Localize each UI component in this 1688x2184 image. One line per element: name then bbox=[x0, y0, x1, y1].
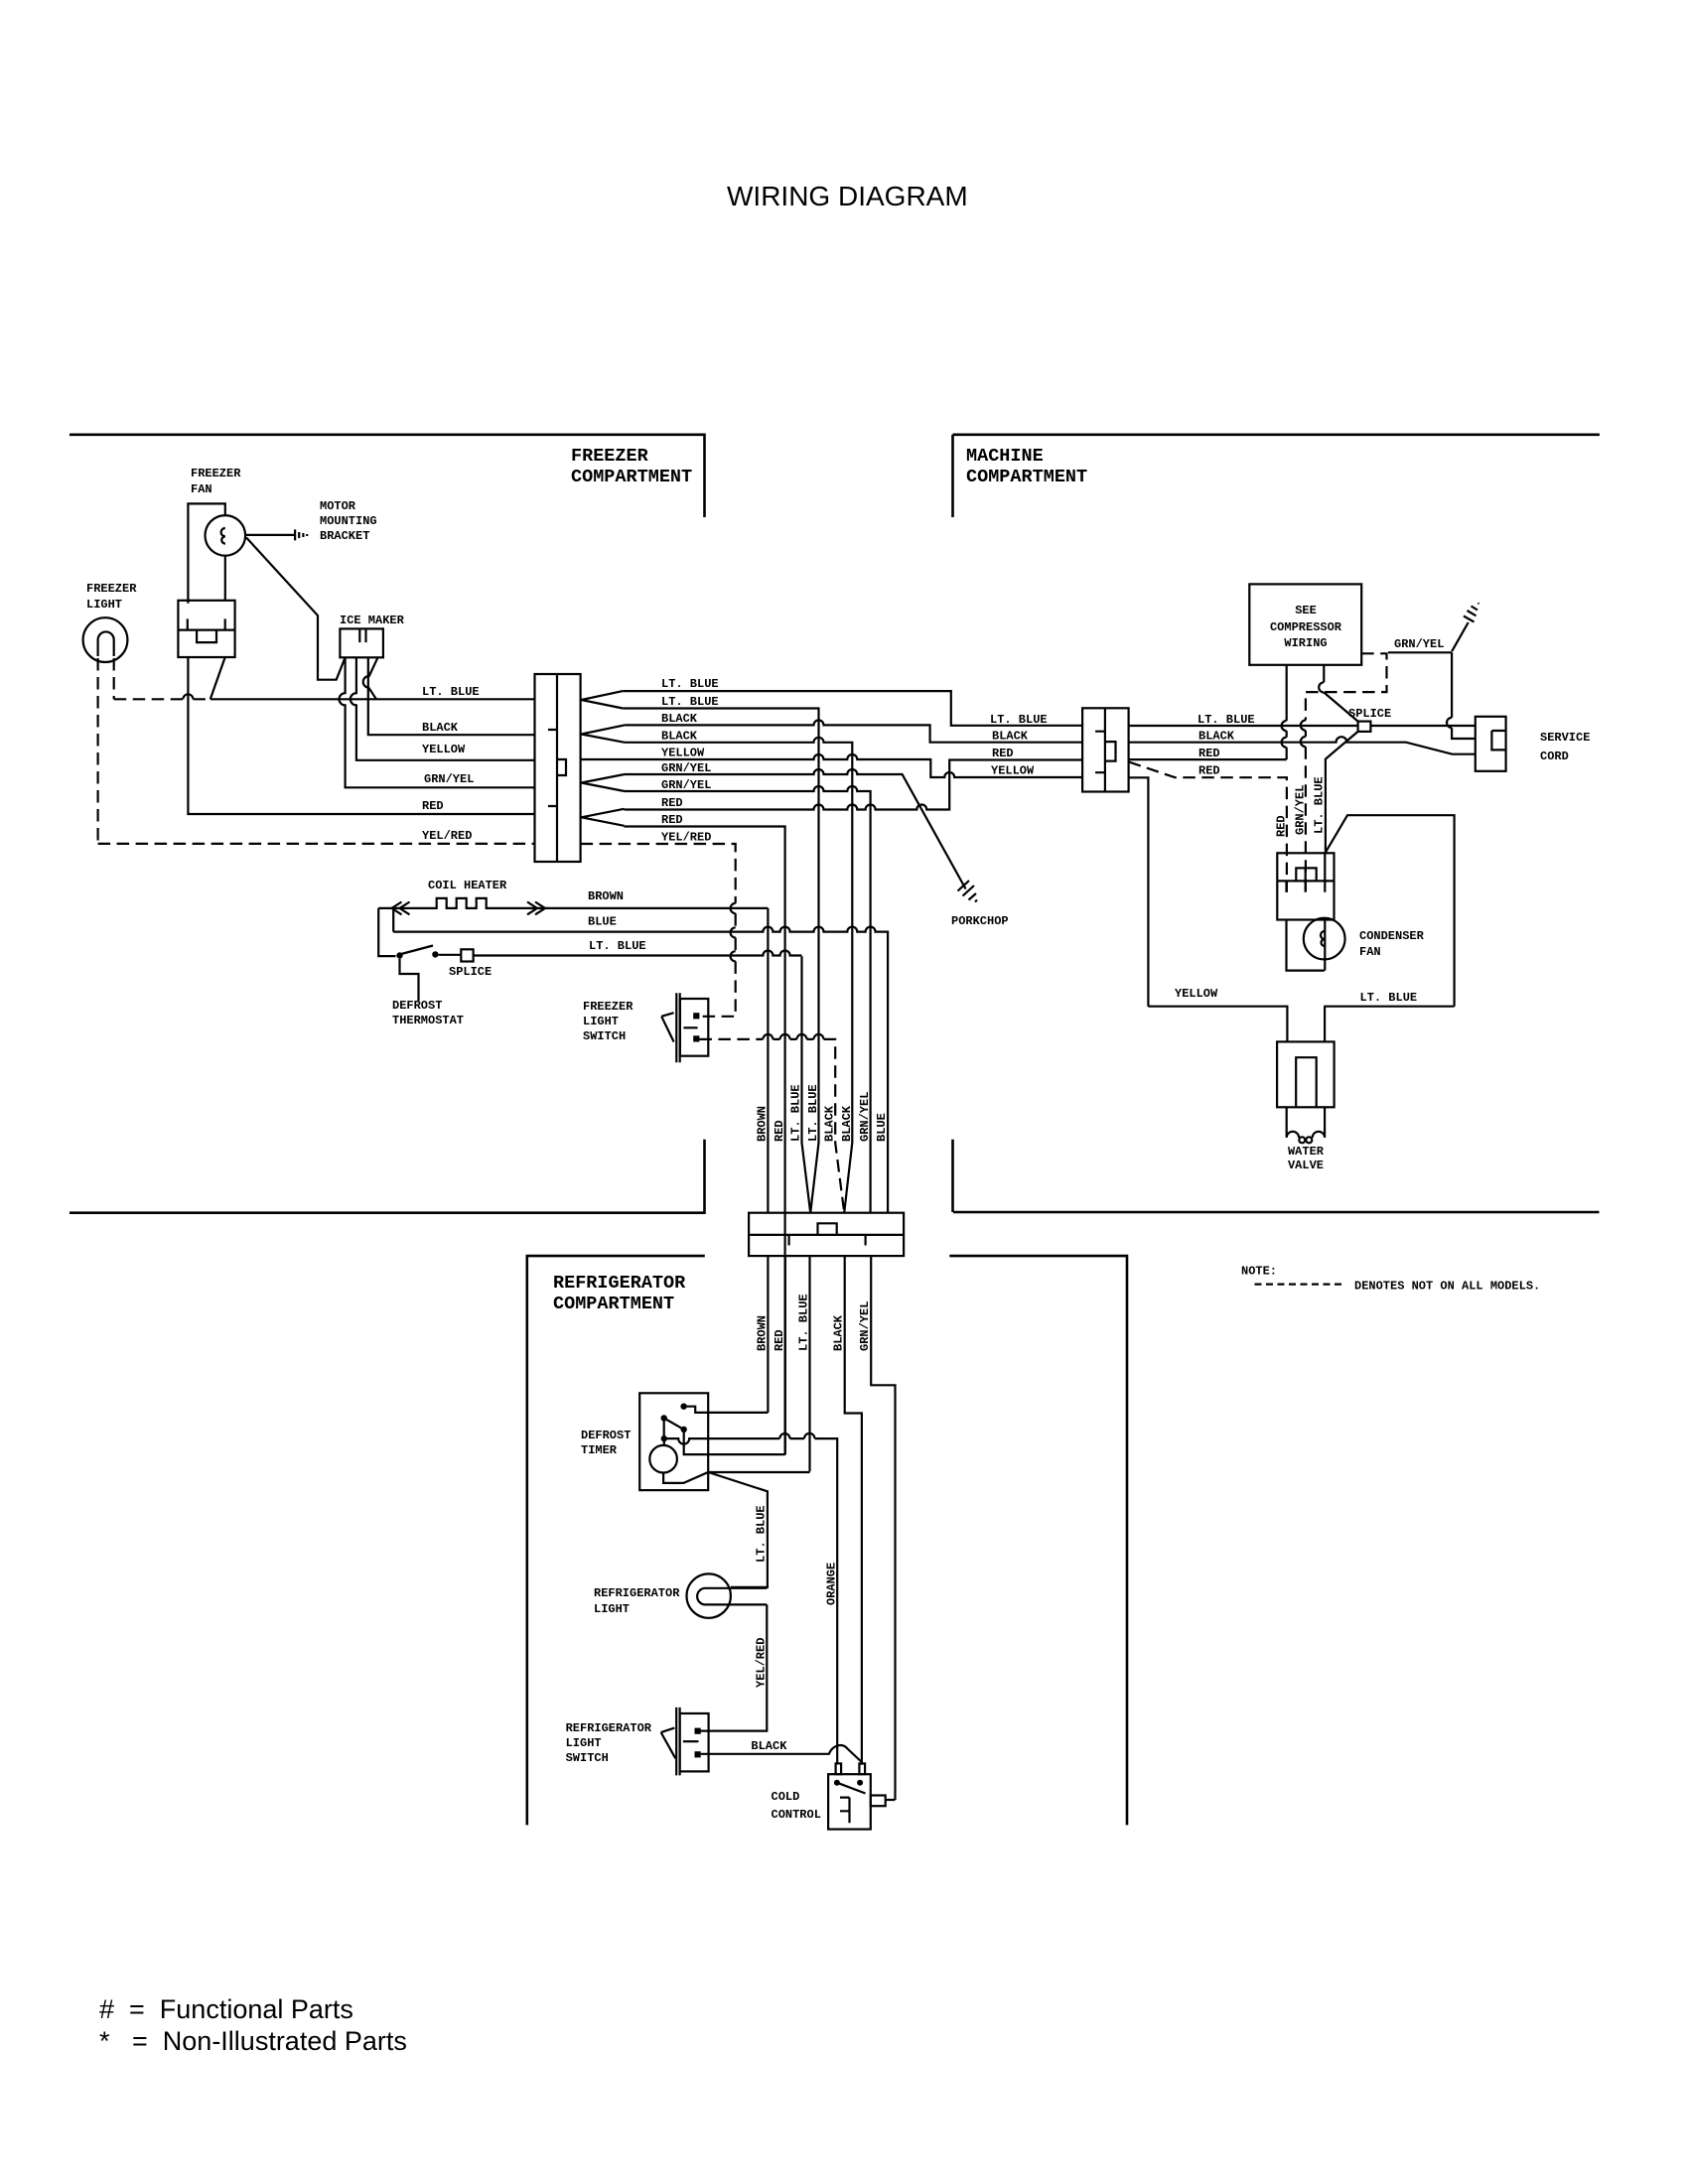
svg-text:MOUNTING: MOUNTING bbox=[320, 514, 377, 528]
defrost thermostat contacts bbox=[396, 952, 402, 958]
splice square machine bbox=[1358, 722, 1371, 732]
compressor LT. BLUE vertical to splice bbox=[1324, 665, 1357, 853]
condenser fan coil marks bbox=[1321, 931, 1325, 946]
svg-text:RED: RED bbox=[1198, 764, 1220, 778]
service cord block bbox=[1476, 717, 1506, 771]
svg-text:BLACK: BLACK bbox=[992, 730, 1029, 744]
machine compartment border bbox=[953, 435, 1600, 1212]
svg-text:MACHINE: MACHINE bbox=[966, 446, 1044, 467]
freezer fan motor circle bbox=[206, 515, 246, 556]
wire BLACK 1 to machine bbox=[625, 720, 1082, 742]
refrigerator light circle bbox=[687, 1573, 731, 1617]
wire LT. BLUE freezer run bbox=[211, 698, 535, 700]
compressor terminal block bbox=[1277, 853, 1334, 920]
refrigerator compartment border bbox=[527, 1256, 1127, 1825]
svg-text:LT. BLUE: LT. BLUE bbox=[789, 1084, 803, 1142]
svg-text:NOTE:: NOTE: bbox=[1241, 1265, 1277, 1279]
svg-text:LT. BLUE: LT. BLUE bbox=[1313, 776, 1327, 834]
svg-text:COMPARTMENT: COMPARTMENT bbox=[571, 467, 692, 487]
svg-text:COMPARTMENT: COMPARTMENT bbox=[966, 467, 1087, 487]
svg-text:FREEZER: FREEZER bbox=[583, 1000, 633, 1014]
svg-text:WIRING DIAGRAM: WIRING DIAGRAM bbox=[727, 181, 968, 211]
svg-text:SPLICE: SPLICE bbox=[449, 965, 492, 979]
svg-text:TIMER: TIMER bbox=[581, 1443, 618, 1457]
wire YEL/RED dashed from light to connector bbox=[98, 843, 535, 845]
freezer fan outline bbox=[188, 503, 224, 603]
svg-text:BLACK: BLACK bbox=[751, 1739, 787, 1753]
freezer light circle bbox=[83, 617, 128, 662]
svg-text:CORD: CORD bbox=[1540, 750, 1569, 763]
svg-text:BLACK: BLACK bbox=[840, 1105, 854, 1142]
svg-text:GRN/YEL: GRN/YEL bbox=[858, 1301, 872, 1351]
svg-text:COIL HEATER: COIL HEATER bbox=[428, 879, 507, 892]
svg-text:DENOTES NOT ON ALL MODELS.: DENOTES NOT ON ALL MODELS. bbox=[1354, 1280, 1540, 1294]
svg-text:FREEZER: FREEZER bbox=[191, 467, 241, 480]
defrost timer contacts bbox=[680, 1404, 686, 1410]
svg-text:DEFROST: DEFROST bbox=[392, 999, 442, 1013]
wire fan block to LT. BLUE junction bbox=[211, 657, 225, 699]
condenser box outline bbox=[1326, 815, 1455, 1007]
wire GRN/YEL 1 to porkchop bbox=[625, 769, 966, 889]
svg-text:COMPARTMENT: COMPARTMENT bbox=[553, 1294, 674, 1314]
wire BROWN below connector bbox=[767, 1256, 769, 1413]
svg-text:DEFROST: DEFROST bbox=[581, 1429, 631, 1442]
svg-text:RED: RED bbox=[422, 799, 444, 813]
defrost timer motor bbox=[649, 1445, 677, 1473]
ice maker pin 2 wire YELLOW bbox=[351, 657, 535, 760]
svg-text:GRN/YEL: GRN/YEL bbox=[1394, 637, 1444, 651]
svg-text:YEL/RED: YEL/RED bbox=[755, 1638, 769, 1688]
ice maker pin 1 wire GRN/YEL bbox=[340, 657, 535, 787]
svg-text:BLACK: BLACK bbox=[823, 1105, 837, 1142]
connector pin flag GRN/YEL bbox=[581, 774, 625, 791]
svg-text:YEL/RED: YEL/RED bbox=[422, 829, 472, 843]
svg-text:LT. BLUE: LT. BLUE bbox=[806, 1084, 820, 1142]
svg-text:RED: RED bbox=[661, 813, 683, 827]
condenser fan circle bbox=[1304, 918, 1345, 960]
wire BROWN vertical bbox=[767, 908, 769, 1213]
svg-text:LT. BLUE: LT. BLUE bbox=[589, 939, 646, 953]
connector pin flag RED bbox=[581, 809, 624, 826]
svg-text:FREEZER: FREEZER bbox=[86, 582, 137, 596]
svg-text:LIGHT: LIGHT bbox=[594, 1602, 630, 1616]
freezer fan coil marks bbox=[221, 528, 225, 544]
wire RED 1 to machine bbox=[625, 760, 1083, 810]
svg-text:BLACK: BLACK bbox=[661, 730, 698, 744]
svg-text:WIRING: WIRING bbox=[1284, 636, 1327, 650]
freezer light bulb bbox=[98, 631, 114, 656]
connector pin flag LT. BLUE bbox=[581, 691, 623, 708]
freezer light switch bbox=[661, 993, 708, 1062]
freezer compartment border bbox=[70, 435, 705, 1213]
wire GRN/YEL dashed compressor bbox=[1306, 653, 1387, 891]
svg-text:SERVICE: SERVICE bbox=[1540, 731, 1590, 745]
freezer connector block bbox=[535, 674, 581, 862]
svg-text:BRACKET: BRACKET bbox=[320, 529, 369, 543]
wire RED machine solid bbox=[1129, 758, 1287, 760]
wire dashed switch to black pin bbox=[699, 1039, 844, 1213]
svg-text:RED: RED bbox=[992, 747, 1014, 760]
svg-text:SWITCH: SWITCH bbox=[566, 1751, 609, 1765]
ice maker pin 3 wire BLACK bbox=[368, 657, 535, 735]
svg-text:SEE: SEE bbox=[1295, 604, 1317, 617]
svg-text:SWITCH: SWITCH bbox=[583, 1029, 626, 1043]
svg-text:SPLICE: SPLICE bbox=[1348, 707, 1391, 721]
wire GRN/YEL below connector bbox=[871, 1256, 895, 1800]
wire BLACK 2 down bbox=[625, 738, 852, 1213]
porkchop symbol bbox=[958, 881, 978, 902]
dashed switch wire hops bbox=[763, 1034, 823, 1039]
coil heater left arrows bbox=[392, 902, 410, 915]
wire fan RED lead bbox=[188, 657, 534, 814]
svg-text:REFRIGERATOR: REFRIGERATOR bbox=[553, 1273, 686, 1294]
wire LT. BLUE rail bbox=[1324, 1007, 1454, 1042]
connector pin flag BLACK bbox=[581, 725, 625, 742]
svg-text:FAN: FAN bbox=[1359, 945, 1381, 959]
water valve coil bbox=[1287, 1107, 1325, 1138]
svg-text:ORANGE: ORANGE bbox=[825, 1563, 839, 1605]
svg-text:RED: RED bbox=[1198, 747, 1220, 760]
svg-text:LT. BLUE: LT. BLUE bbox=[422, 685, 480, 699]
svg-text:YELLOW: YELLOW bbox=[1175, 987, 1218, 1001]
svg-text:REFRIGERATOR: REFRIGERATOR bbox=[566, 1721, 652, 1735]
cold control box bbox=[828, 1763, 895, 1829]
svg-text:WATER: WATER bbox=[1288, 1145, 1325, 1159]
refrigerator light switch bbox=[661, 1707, 709, 1776]
svg-text:LT. BLUE: LT. BLUE bbox=[661, 677, 719, 691]
ground wire down to service cord bbox=[1452, 652, 1476, 739]
wire coil heater left drop bbox=[378, 908, 395, 956]
svg-text:LT. BLUE: LT. BLUE bbox=[661, 695, 719, 709]
svg-text:COLD: COLD bbox=[772, 1790, 800, 1804]
svg-text:VALVE: VALVE bbox=[1288, 1159, 1324, 1172]
svg-text:LT. BLUE: LT. BLUE bbox=[755, 1505, 769, 1563]
wire BLACK below connector bbox=[845, 1256, 862, 1765]
condenser fan verticals bbox=[1287, 920, 1326, 971]
svg-text:THERMOSTAT: THERMOSTAT bbox=[392, 1014, 464, 1027]
defrost timer box bbox=[639, 1393, 708, 1490]
svg-text:GRN/YEL: GRN/YEL bbox=[858, 1092, 872, 1142]
svg-text:* = Non-Illustrated Parts: * = Non-Illustrated Parts bbox=[99, 2026, 407, 2056]
wire dashed light to junction (hop over fan wire) bbox=[114, 698, 211, 700]
svg-text:BLACK: BLACK bbox=[661, 712, 698, 726]
svg-text:BROWN: BROWN bbox=[756, 1106, 770, 1142]
freezer fan connector block bbox=[178, 601, 234, 657]
wire BLACK to timer bbox=[664, 1438, 837, 1763]
wire fan motor to ice maker bbox=[246, 538, 346, 680]
svg-text:MOTOR: MOTOR bbox=[320, 499, 356, 513]
coil heater element bbox=[378, 898, 768, 908]
svg-text:YELLOW: YELLOW bbox=[661, 747, 705, 760]
svg-text:RED: RED bbox=[1275, 815, 1289, 837]
svg-text:FAN: FAN bbox=[191, 482, 212, 496]
wire YELLOW to machine bbox=[581, 754, 1083, 777]
svg-text:LT. BLUE: LT. BLUE bbox=[990, 713, 1048, 727]
wire LT. BLUE machine to splice and service cord bbox=[1129, 725, 1476, 727]
wire BLUE from heater bbox=[393, 908, 888, 1213]
wire BROWN to timer bbox=[684, 1407, 769, 1413]
wire LT. BLUE 1 to machine bbox=[623, 691, 1082, 726]
svg-text:LIGHT: LIGHT bbox=[86, 598, 122, 612]
svg-text:# = Functional Parts: # = Functional Parts bbox=[99, 1994, 353, 2024]
YEL/RED dashed hops bbox=[731, 903, 736, 962]
svg-text:YELLOW: YELLOW bbox=[422, 743, 466, 756]
wire right contact to splice bbox=[439, 954, 462, 956]
svg-text:GRN/YEL: GRN/YEL bbox=[1294, 785, 1308, 835]
wire LT. BLUE coil heater run bbox=[474, 951, 802, 956]
svg-text:GRN/YEL: GRN/YEL bbox=[424, 772, 474, 786]
wire RED below connector bbox=[784, 1256, 786, 1454]
coil heater right arrows bbox=[527, 902, 545, 915]
wire LT. BLUE 2 down bbox=[623, 709, 818, 1213]
wire BLACK machine to service cord bbox=[1129, 737, 1476, 753]
wire YELLOW machine down bbox=[1129, 777, 1149, 1006]
svg-text:BLUE: BLUE bbox=[875, 1113, 889, 1142]
ice maker pin 4 wire LT. BLUE bbox=[363, 657, 378, 699]
svg-text:COMPRESSOR: COMPRESSOR bbox=[1270, 620, 1342, 634]
svg-text:FREEZER: FREEZER bbox=[571, 446, 649, 467]
wire YELLOW rail bbox=[1148, 1007, 1287, 1042]
svg-text:BLUE: BLUE bbox=[588, 915, 617, 929]
refrigerator connector block bbox=[749, 1213, 904, 1256]
svg-text:YEL/RED: YEL/RED bbox=[661, 831, 711, 845]
svg-text:LT. BLUE: LT. BLUE bbox=[1360, 991, 1418, 1005]
refrigerator light bulb bbox=[697, 1588, 767, 1605]
ice maker block bbox=[340, 628, 383, 657]
svg-text:BLACK: BLACK bbox=[422, 721, 459, 735]
svg-text:BROWN: BROWN bbox=[588, 889, 624, 903]
wire YEL/RED from light bbox=[700, 1604, 768, 1730]
wire YEL/RED dashed right of connector bbox=[581, 844, 736, 1017]
wire RED to timer bbox=[684, 1432, 785, 1455]
freezer light dashed leads bbox=[98, 658, 114, 844]
machine connector block bbox=[1082, 708, 1129, 791]
wire timer motor out bbox=[663, 1472, 809, 1587]
wire LT. BLUE below connector bbox=[808, 1256, 810, 1471]
defrost thermostat body bbox=[400, 959, 419, 1001]
water valve connector bbox=[1277, 1041, 1335, 1107]
svg-text:CONTROL: CONTROL bbox=[772, 1808, 821, 1822]
splice square freezer bbox=[461, 949, 473, 961]
svg-text:LIGHT: LIGHT bbox=[583, 1015, 619, 1028]
svg-text:CONDENSER: CONDENSER bbox=[1359, 929, 1425, 943]
wire RED 2 down to timer bbox=[625, 827, 785, 1455]
wire RED dashed to terminal block bbox=[1129, 762, 1287, 892]
svg-text:ICE MAKER: ICE MAKER bbox=[340, 614, 405, 627]
svg-text:RED: RED bbox=[661, 796, 683, 810]
svg-text:REFRIGERATOR: REFRIGERATOR bbox=[594, 1586, 680, 1600]
svg-text:YELLOW: YELLOW bbox=[991, 764, 1035, 778]
defrost timer arm bbox=[664, 1419, 684, 1439]
wire GRN/YEL 2 down bbox=[625, 786, 871, 1213]
compressor RED vertical with hops bbox=[1286, 665, 1288, 759]
svg-text:BLACK: BLACK bbox=[1198, 730, 1235, 744]
svg-text:RED: RED bbox=[773, 1120, 786, 1142]
svg-text:LIGHT: LIGHT bbox=[566, 1736, 602, 1750]
svg-text:PORKCHOP: PORKCHOP bbox=[951, 914, 1009, 928]
see compressor wiring box bbox=[1249, 584, 1361, 664]
motor mounting bracket symbol bbox=[245, 529, 307, 540]
